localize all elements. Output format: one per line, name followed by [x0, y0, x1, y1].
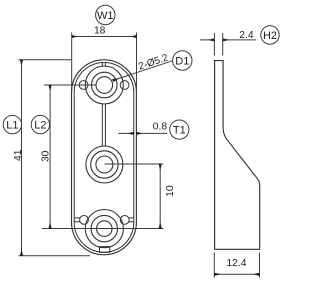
svg-text:2-Ø5.2: 2-Ø5.2 [137, 52, 170, 72]
L1 extension line bottom [19, 255, 91, 257]
W1 extension line left [71, 33, 73, 94]
L1 extension line top [19, 59, 72, 61]
svg-text:30: 30 [41, 150, 52, 162]
dimension 2.4 arrows [200, 39, 214, 41]
svg-text:18: 18 [94, 26, 106, 37]
middle hole bore [96, 156, 113, 173]
top hole middle circle [92, 72, 118, 98]
bottom left ear [80, 216, 89, 225]
bottom hole middle circle [91, 215, 117, 241]
outer stadium plate outline [72, 60, 137, 255]
balloon H2 [261, 26, 279, 44]
top left ear [79, 81, 88, 90]
dimension line 10 [159, 164, 161, 229]
middle hole middle circle [91, 151, 118, 178]
svg-text:2.4: 2.4 [239, 30, 254, 41]
H2 extension lines [214, 33, 222, 56]
svg-text:H2: H2 [263, 30, 277, 42]
middle hole centre extension line [104, 163, 163, 165]
side view hook profile [215, 61, 260, 250]
bottom right ear [120, 216, 129, 225]
W1 extension line right [136, 33, 138, 94]
balloon L1 [3, 115, 21, 133]
inner stadium edge [74, 63, 134, 253]
12.4 extension lines [214, 253, 259, 278]
bottom hole bore [97, 221, 113, 237]
svg-text:10: 10 [165, 185, 176, 197]
top right ear [120, 81, 129, 90]
bottom tab rectangle [100, 247, 110, 253]
middle hole outer circle [86, 146, 123, 183]
bottom hole boss outer circle [85, 210, 123, 248]
svg-text:W1: W1 [97, 10, 114, 22]
svg-text:41: 41 [13, 149, 24, 161]
bottom hole centre extension line [42, 228, 163, 230]
balloon W1 [96, 5, 115, 24]
svg-text:L2: L2 [34, 119, 46, 131]
svg-text:D1: D1 [175, 55, 189, 67]
dimension line 30 [49, 85, 51, 229]
rib between top and middle holes [102, 104, 105, 146]
balloon D1 [173, 51, 192, 70]
svg-text:T1: T1 [173, 124, 186, 136]
0.8 thickness arrows [118, 132, 133, 134]
dimension line 18 [72, 36, 137, 38]
svg-text:0.8: 0.8 [153, 122, 168, 133]
leader line 2-O5.2 [113, 61, 173, 81]
balloon T1 [170, 120, 189, 139]
balloon L2 [31, 115, 49, 133]
dimension line 12.4 [214, 273, 259, 275]
dimension line 41 [21, 60, 23, 256]
top hole centre extension line [44, 84, 96, 86]
top hole boss outer circle [85, 66, 123, 104]
top tab lines [102, 63, 105, 67]
svg-text:L1: L1 [6, 119, 18, 131]
top hole bore [96, 77, 113, 94]
bottom ear stub lines [74, 218, 134, 222]
svg-text:12.4: 12.4 [226, 258, 246, 269]
